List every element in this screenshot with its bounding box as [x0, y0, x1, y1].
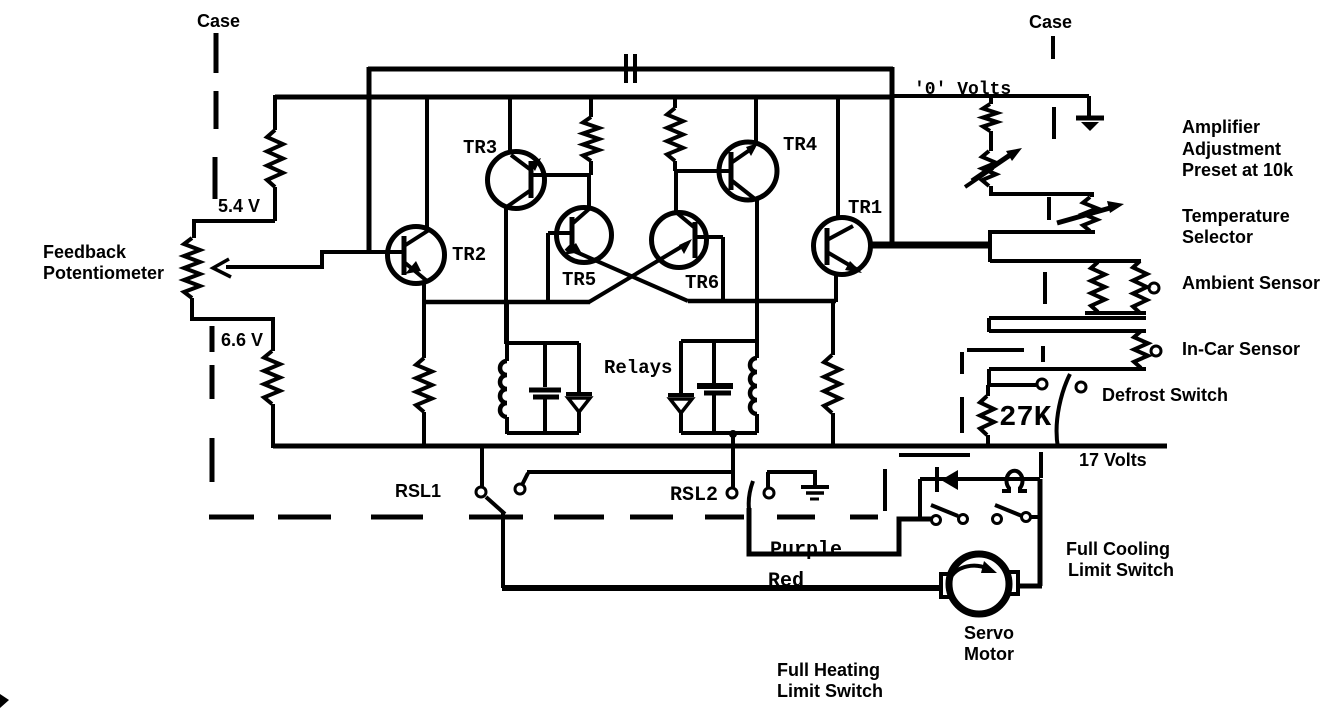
- wire defrost feed: [989, 383, 1036, 387]
- potentiometer temperature selector: [1083, 197, 1097, 231]
- inductor relay1 coil: [505, 302, 509, 361]
- terminal servo right: [1008, 572, 1018, 594]
- terminal RSL2 contact: [764, 488, 774, 498]
- node 0V bus horizontal: [275, 95, 892, 100]
- wire in-car top rail: [989, 329, 1146, 333]
- resistor above TR5 node: [589, 98, 593, 117]
- svg-text:TR6: TR6: [685, 272, 719, 294]
- wire TR5 base vertical down: [546, 233, 550, 302]
- wiper arrow temperature selector: [1057, 208, 1110, 223]
- wire preset to temperature selector: [991, 186, 1092, 197]
- svg-text:Potentiometer: Potentiometer: [43, 263, 164, 283]
- wire rail to ground: [767, 470, 814, 474]
- ground symbol top right: [1087, 96, 1091, 116]
- wire doubled bus segment: [899, 453, 970, 457]
- wire cooling right vertical: [1038, 479, 1043, 586]
- terminal RSL1 contact: [515, 484, 525, 494]
- terminal defrost switch left: [1037, 379, 1047, 389]
- svg-text:TR5: TR5: [562, 269, 596, 291]
- wire cooling branch left vertical: [918, 479, 922, 520]
- svg-text:Relays: Relays: [604, 357, 672, 379]
- switch defrost lever: [1057, 374, 1070, 448]
- wire TR4 base horizontal: [676, 169, 731, 173]
- wire RSL1 drop from bus: [480, 446, 484, 487]
- svg-text:Motor: Motor: [964, 644, 1014, 664]
- wire servo right to cooling vertical: [1016, 584, 1042, 589]
- svg-text:TR4: TR4: [783, 134, 817, 156]
- node 17 Volts bus: [273, 444, 1167, 449]
- transistor TR5: [557, 208, 612, 263]
- transistor TR4: [719, 142, 777, 200]
- wire TR5 base left: [548, 231, 572, 235]
- case boundary left dashed line: [214, 33, 219, 73]
- svg-text:Feedback: Feedback: [43, 242, 127, 262]
- wire TR2 collector to 0V bus: [425, 98, 429, 227]
- wire node to TR5 collector: [587, 175, 591, 208]
- transistor TR3: [488, 152, 545, 209]
- wire in-car bottom rail: [989, 367, 1146, 371]
- svg-text:Limit Switch: Limit Switch: [1068, 560, 1174, 580]
- svg-text:RSL1: RSL1: [395, 481, 441, 501]
- relay right box bottom edge: [681, 431, 757, 435]
- wire TR6 base vertical down: [721, 237, 725, 302]
- case boundary bottom dashed line: [209, 515, 254, 520]
- svg-text:Defrost Switch: Defrost Switch: [1102, 385, 1228, 405]
- terminal in-car sensor: [1151, 346, 1161, 356]
- switch RSL2 lever: [749, 481, 753, 509]
- resistor amplifier preset upper: [989, 96, 993, 104]
- terminal cooling switch c3: [993, 515, 1002, 524]
- svg-text:Servo: Servo: [964, 623, 1014, 643]
- transistor TR6: [652, 213, 707, 268]
- wire 5.4V corner: [194, 221, 275, 238]
- ground near RSL2: [813, 470, 817, 485]
- wire TR2 emitter down: [422, 282, 426, 358]
- terminal defrost switch right: [1076, 382, 1086, 392]
- potentiometer amplifier preset lower: [982, 151, 996, 186]
- diode in right relay: [679, 341, 683, 395]
- svg-text:17 Volts: 17 Volts: [1079, 450, 1147, 470]
- svg-text:Limit Switch: Limit Switch: [777, 681, 883, 701]
- wire RSL1 lever to red wire: [501, 513, 505, 588]
- wire selector bottom rail: [988, 230, 1095, 234]
- wire right emitter rail: [688, 299, 836, 304]
- svg-text:In-Car Sensor: In-Car Sensor: [1182, 339, 1300, 359]
- capacitor in right relay: [712, 341, 716, 383]
- terminal ambient sensor: [1149, 283, 1159, 293]
- speck bottom left: [0, 694, 9, 708]
- svg-text:Case: Case: [1029, 12, 1072, 32]
- transistor TR1: [814, 218, 871, 275]
- svg-text:Case: Case: [197, 11, 240, 31]
- wiper arrow amplifier preset: [972, 153, 1013, 181]
- wire sensor ladder left vertical upper: [988, 232, 992, 262]
- svg-text:Purple: Purple: [770, 539, 842, 562]
- case boundary right extra dashes: [967, 348, 1024, 352]
- svg-text:TR1: TR1: [848, 197, 882, 219]
- terminal RSL1 pole: [476, 487, 486, 497]
- case boundary right dashed line: [1051, 36, 1055, 59]
- wire TR3 emitter down to relay coil: [504, 207, 508, 344]
- wire link rail RSL1 to RSL2: [527, 470, 731, 474]
- capacitor in left relay: [543, 343, 547, 387]
- svg-text:Full Heating: Full Heating: [777, 660, 880, 680]
- svg-text:27K: 27K: [999, 401, 1052, 434]
- wire cooling diode rail: [920, 477, 1040, 481]
- wire red: [502, 585, 941, 591]
- wire left emitter rail: [424, 300, 590, 305]
- capacitor C1 break marks on top line: [624, 54, 628, 83]
- wire ambient top rail: [990, 259, 1141, 263]
- wire diagonal TR5 emitter to right rail: [574, 251, 688, 301]
- wire TR6 base right: [695, 235, 723, 239]
- svg-text:6.6 V: 6.6 V: [221, 330, 263, 350]
- relay left box top edge: [507, 341, 579, 345]
- svg-text:RSL2: RSL2: [670, 484, 718, 507]
- wire RSL2 contact riser: [766, 472, 770, 488]
- svg-text:Preset at 10k: Preset at 10k: [1182, 160, 1294, 180]
- motor servo body: [949, 554, 1009, 614]
- wire TR3 collector to 0V bus: [508, 98, 512, 153]
- inductor small loop component: [1002, 471, 1027, 491]
- terminal cooling switch c1: [932, 516, 941, 525]
- wire TR4 collector to 0V bus: [754, 98, 758, 144]
- svg-text:Amplifier: Amplifier: [1182, 117, 1260, 137]
- svg-text:TR3: TR3: [463, 137, 497, 159]
- wire purple: [749, 508, 931, 554]
- transistor TR2: [388, 227, 445, 284]
- svg-text:5.4 V: 5.4 V: [218, 196, 260, 216]
- svg-text:Adjustment: Adjustment: [1182, 139, 1281, 159]
- resistor above TR6 node: [673, 98, 677, 108]
- terminal cooling switch c2: [959, 515, 968, 524]
- wire left vertical from top line down to TR2 base node: [367, 67, 372, 252]
- wire ambient bottom rail: [1085, 311, 1146, 315]
- svg-text:Temperature: Temperature: [1182, 206, 1290, 226]
- inductor relay2 coil: [755, 343, 759, 358]
- wire relay2 to bus and RSL2: [731, 433, 735, 488]
- wire diagonal left rail to TR6 emitter: [589, 244, 686, 302]
- resistor below TR1: [831, 302, 835, 355]
- relay right box top edge: [681, 339, 757, 343]
- wire TR4 emitter down through node to relay coil: [755, 199, 759, 343]
- svg-text:Full Cooling: Full Cooling: [1066, 539, 1170, 559]
- wire pot bottom to 6.6V corner: [192, 298, 273, 351]
- wire right vertical from top line down to TR1 emitter wire: [890, 67, 895, 245]
- wire TR3 base: [531, 173, 591, 177]
- terminal RSL2 pole: [727, 488, 737, 498]
- resistor top-left below 0V bus: [273, 95, 277, 130]
- wire TR1 collector to 0V bus: [836, 95, 840, 219]
- resistor below TR2: [416, 358, 432, 412]
- svg-text:Red: Red: [768, 570, 804, 593]
- svg-text:TR2: TR2: [452, 244, 486, 266]
- switch RSL1 lever: [486, 497, 505, 514]
- switch cooling lever 1: [931, 505, 958, 516]
- terminal servo left: [941, 574, 951, 597]
- wiper arrow into feedback potentiometer: [213, 259, 231, 277]
- wire RSL1 contact riser: [522, 473, 528, 485]
- wire switch row to right vertical: [1031, 515, 1040, 519]
- resistor below 6.6V: [264, 351, 280, 404]
- resistor in-car sensor: [1134, 331, 1148, 368]
- potentiometer feedback zigzag: [184, 238, 200, 298]
- wire RSL2 drop from bus: [731, 446, 735, 488]
- resistor 27K: [986, 385, 990, 396]
- wire ambient return rail: [989, 316, 1146, 320]
- wire node to TR6 collector: [674, 171, 678, 213]
- svg-text:'0' Volts: '0' Volts: [914, 80, 1011, 100]
- wire cooling contact rail: [899, 517, 932, 521]
- resistor ambient left: [1091, 262, 1105, 312]
- servo rotation arrow: [951, 566, 988, 577]
- svg-text:Ambient Sensor: Ambient Sensor: [1182, 273, 1320, 293]
- wire TR1 bottom to right rail: [834, 274, 838, 302]
- wire TR1 emitter right to sensor network: [870, 242, 991, 249]
- diode in left relay: [577, 343, 581, 394]
- svg-text:Selector: Selector: [1182, 227, 1253, 247]
- switch cooling lever 2: [995, 505, 1022, 516]
- wire top line with capacitor-gap mark: [368, 67, 893, 72]
- relay left box bottom edge: [507, 431, 579, 435]
- resistor ambient right: [1133, 261, 1147, 313]
- diode cooling: [935, 467, 939, 492]
- terminal cooling switch c4: [1022, 513, 1031, 522]
